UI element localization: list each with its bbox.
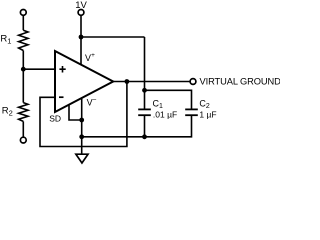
wire R2 bottom lead <box>22 121 24 137</box>
ground <box>76 154 88 163</box>
op-amp U1 <box>55 51 113 112</box>
wire R1 to node A <box>22 51 24 70</box>
capacitor C2 <box>185 109 198 115</box>
svg-text:VIRTUAL GROUND: VIRTUAL GROUND <box>200 77 281 87</box>
svg-text:1 µF: 1 µF <box>199 109 216 119</box>
resistor R1 <box>19 30 28 50</box>
label - input <box>59 96 64 98</box>
terminal VIRTUAL GROUND <box>190 79 196 85</box>
svg-text:R1: R1 <box>0 34 11 46</box>
wire top rail <box>81 36 145 38</box>
junction SD/V- <box>79 118 84 123</box>
wire SD pin <box>69 105 82 120</box>
svg-text:R2: R2 <box>2 105 13 117</box>
capacitor C1 <box>138 90 151 137</box>
wire 1V down to rail <box>80 15 82 37</box>
junction output/feedback <box>125 79 130 84</box>
junction V- / ground line <box>79 134 84 139</box>
resistor R2 <box>19 103 28 122</box>
junction bypass node <box>142 88 147 93</box>
terminal 1V supply <box>78 10 84 16</box>
terminal (R1 top input) <box>20 10 26 16</box>
label + input <box>59 66 65 73</box>
wire V- pin down to ground <box>81 98 83 154</box>
wire R1 top lead <box>22 15 24 30</box>
wire output <box>112 81 190 83</box>
svg-text:V+: V+ <box>85 52 95 63</box>
junction 1V rail / V+ pin <box>79 35 84 40</box>
junction node A (R1/R2/+IN) <box>21 67 26 72</box>
junction C1 bottom / ground line <box>142 134 147 139</box>
wire V+ pin <box>80 37 82 65</box>
wire bypass branch to C2 top <box>145 90 192 109</box>
wire supply drop to bypass caps <box>144 37 146 90</box>
svg-text:V−: V− <box>87 97 97 108</box>
wire ground line (V- node to C1, C2 bottoms) <box>82 115 192 137</box>
terminal (R2 bottom) <box>20 137 26 143</box>
svg-text:SD: SD <box>49 114 61 124</box>
wire node A to op-amp +IN <box>23 68 55 70</box>
wire node A to R2 <box>22 69 24 102</box>
svg-text:.01 µF: .01 µF <box>153 109 177 119</box>
wire -IN feedback loop <box>40 82 127 147</box>
